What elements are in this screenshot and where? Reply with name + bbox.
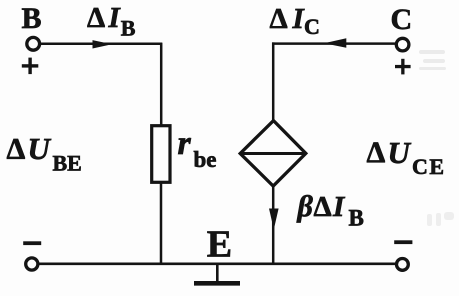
svg-text:BE: BE [53,150,82,175]
svg-text:CE: CE [412,154,446,179]
scan smudge top-right [419,50,446,70]
terminal B [27,37,40,50]
resistor r_be [152,126,170,183]
svg-text:Δ: Δ [314,191,332,223]
arrowhead βΔI_B down-pointing [269,209,279,230]
arrowhead ΔI_C left-pointing [324,38,346,48]
plus sign left [22,58,39,75]
svg-text:β: β [297,190,314,223]
svg-text:I: I [332,191,346,223]
label ΔI_C [270,3,320,39]
terminal E- left [26,258,38,270]
wire current source bottom to emitter rail [272,185,275,265]
svg-text:Δ: Δ [7,133,26,166]
label βΔI_B [297,190,364,230]
wire vertical node to current source top [272,42,275,122]
minus sign right [394,240,412,244]
svg-text:U: U [28,131,52,166]
minus sign left [23,241,41,245]
ground at E [194,264,240,283]
svg-text:I: I [108,2,122,34]
label ΔI_B [87,2,136,40]
terminal C [396,38,409,51]
scan smudge right-middle [427,212,454,226]
dependent current source U (diamond) [240,121,306,186]
svg-text:E: E [207,224,232,266]
svg-text:C: C [391,3,413,36]
svg-text:Δ: Δ [270,3,288,35]
label r_be [178,125,217,172]
wire bottom emitter rail [39,262,396,265]
label ΔU_BE [7,131,82,175]
arrowhead ΔI_B right-pointing [93,40,113,48]
plus sign right [395,59,411,75]
wire top-right horizontal C to node [272,42,396,45]
label ΔU_CE [367,135,446,179]
svg-text:be: be [194,147,217,172]
svg-text:Δ: Δ [87,2,105,34]
svg-text:C: C [304,14,320,39]
wire vertical node to resistor top [160,43,163,127]
svg-text:Δ: Δ [367,136,386,169]
svg-text:r: r [178,125,192,162]
svg-text:B: B [121,15,136,40]
svg-text:B: B [349,205,364,230]
terminal E- right [397,259,409,271]
wire top-left horizontal B to node [40,43,162,46]
wire resistor bottom to emitter rail [160,182,163,265]
svg-text:B: B [22,2,42,35]
svg-text:U: U [388,135,412,170]
